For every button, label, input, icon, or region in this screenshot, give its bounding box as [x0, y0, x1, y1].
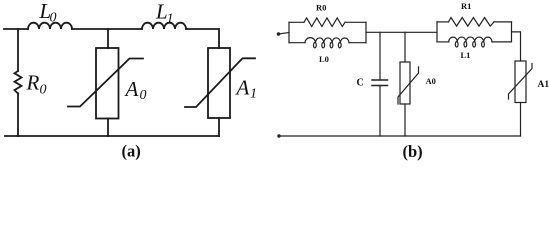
svg-text:L0: L0: [319, 54, 329, 64]
svg-text:A: A: [124, 77, 139, 101]
svg-text:L1: L1: [461, 50, 471, 60]
svg-text:A: A: [235, 76, 250, 100]
svg-text:0: 0: [50, 11, 57, 26]
svg-text:0: 0: [40, 83, 47, 98]
svg-text:1: 1: [250, 87, 257, 102]
svg-text:A0: A0: [426, 76, 436, 86]
svg-text:R1: R1: [461, 1, 471, 11]
svg-text:C: C: [357, 78, 364, 89]
svg-text:(b): (b): [403, 142, 423, 161]
svg-text:R: R: [26, 71, 40, 95]
svg-text:1: 1: [167, 11, 174, 26]
svg-text:R0: R0: [316, 3, 326, 13]
svg-text:(a): (a): [122, 141, 141, 160]
svg-text:0: 0: [140, 88, 147, 103]
svg-text:A1: A1: [538, 80, 550, 90]
